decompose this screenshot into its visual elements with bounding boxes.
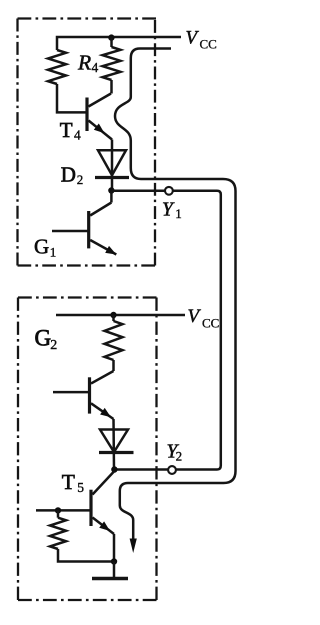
svg-text:D: D [61,163,76,187]
svg-text:T: T [62,470,75,494]
svg-text:CC: CC [200,37,217,52]
node: junction dot at ground node [111,558,117,564]
gate G1 dash-dot boundary box [18,19,157,266]
wire: R4 bottom to T4 collector [110,80,113,94]
svg-text:G: G [34,234,49,258]
wire: G2 Vcc rail [56,314,185,317]
ground [113,562,116,578]
svg-text:2: 2 [176,448,183,463]
node: junction dot at T5 base [55,507,61,513]
wire: Y1 to Y2 connection [111,191,220,470]
svg-text:R: R [77,51,91,75]
wire: G2 emitter down through diode to Y2 node [112,419,115,470]
svg-text:G: G [35,325,52,350]
svg-text:V: V [188,306,202,327]
transistor T5 [93,471,115,495]
resistor R4 [110,38,113,47]
svg-text:2: 2 [50,338,57,353]
terminal Y1 (open circle) [165,187,173,195]
terminal Y2 (open circle) [168,466,176,474]
arrowhead of current-flow indicator [130,539,137,554]
svg-text:4: 4 [92,60,99,75]
wire: G1 Vcc rail [57,37,181,50]
transistor T4 [85,98,88,132]
svg-text:1: 1 [175,206,182,221]
svg-text:2: 2 [77,172,84,187]
node: G1 output junction dot [108,187,114,193]
node: junction dot on G2 Vcc rail [110,312,116,318]
wire: T5 emitter down to ground node [113,534,116,562]
resistor (G1 base resistor, left) [48,50,66,84]
diode (G2) [100,430,128,453]
wire: left resistor bottom to T4 base [57,84,87,112]
svg-text:Y: Y [162,199,175,220]
diode D2 [98,150,126,175]
resistor (T5 base resistor) [57,510,60,517]
wire: base resistor bottom to emitter node [58,549,114,562]
svg-text:4: 4 [74,127,81,142]
svg-text:T: T [60,118,73,142]
node: junction dot on G1 Vcc rail at R4 top [108,34,114,40]
gate G2 dash-dot boundary box [18,298,157,601]
svg-text:1: 1 [50,245,57,260]
svg-text:5: 5 [77,480,84,495]
transistor (G2 upper output transistor) [91,371,114,384]
transistor (G1 lower output transistor) [110,191,113,203]
wire: current-flow indicator from G1 Vcc through output to G2 (curvy line) [115,49,236,540]
svg-text:CC: CC [202,316,219,331]
svg-text:V: V [186,28,200,49]
wire: T4 emitter down through diode to output node [111,140,114,191]
node: G2 output junction dot (Y2 node) [111,466,117,472]
resistor (G2 collector resistor) [112,315,115,321]
